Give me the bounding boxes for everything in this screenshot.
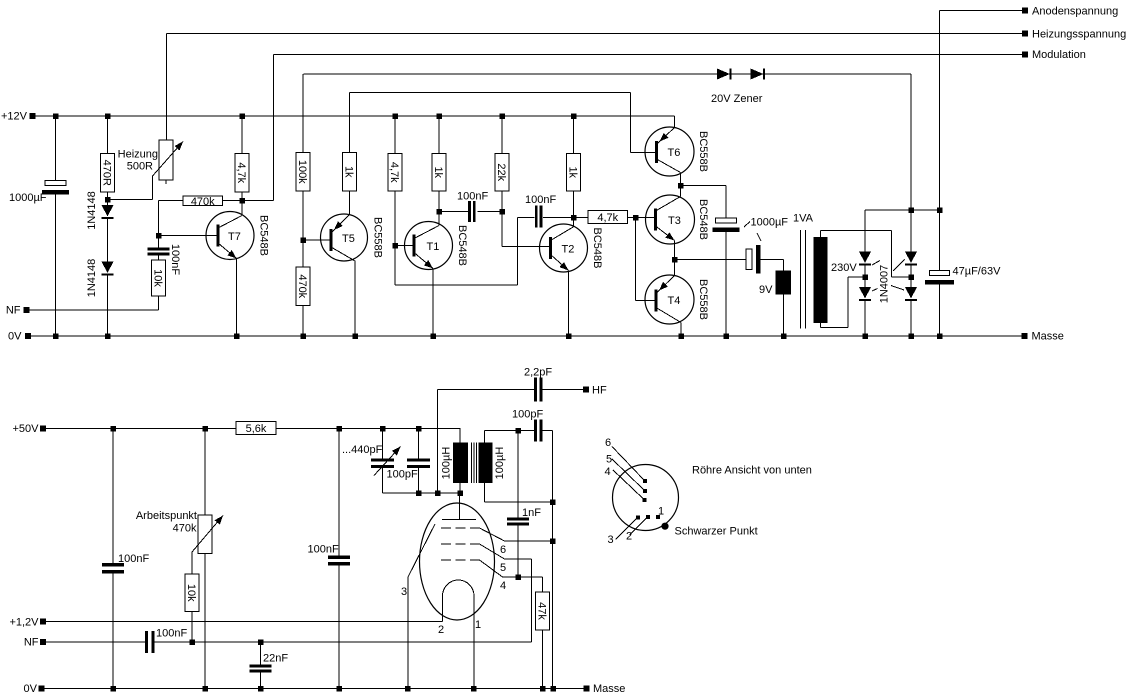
node tank/C100p xyxy=(416,490,422,496)
node 0V/R470k xyxy=(300,333,306,339)
wire C100p-tank bottom xyxy=(418,468,420,493)
node +50V/Cvar xyxy=(380,426,386,432)
svg-text:Anodenspannung: Anodenspannung xyxy=(1032,6,1118,18)
svg-text:500R: 500R xyxy=(127,161,153,173)
wire zener line right xyxy=(765,73,912,75)
transistor T6 bar xyxy=(655,141,658,163)
capacitor 1nF xyxy=(507,518,529,521)
tube grid1 dashes xyxy=(441,527,480,529)
socket pin 1 xyxy=(656,515,660,519)
transistor T3 collector xyxy=(656,197,681,212)
wire NF line right xyxy=(155,641,532,643)
svg-text:T4: T4 xyxy=(668,295,681,307)
transistor T2 bar xyxy=(549,237,552,259)
terminal Masse top xyxy=(1022,333,1028,339)
wire D4 bottom xyxy=(864,300,866,336)
transistor T6 collector xyxy=(657,159,681,173)
node 0V/T7e xyxy=(234,333,240,339)
node +12V/R4k7-T1 xyxy=(392,113,398,119)
node 0V/bridge2 xyxy=(908,333,914,339)
wire 47k bottom xyxy=(542,630,544,689)
svg-text:2: 2 xyxy=(626,531,632,543)
wire pin3 down xyxy=(407,577,409,689)
wire T6 collector down xyxy=(680,173,682,197)
osc core line 1 xyxy=(470,443,472,484)
transistor T2 circle xyxy=(540,224,588,272)
wire 470k-T5 top xyxy=(302,240,304,267)
winding 100uH L1 xyxy=(453,443,468,484)
wire C100n to 10k xyxy=(158,256,160,261)
wire L2 bottom xyxy=(484,483,486,502)
wire R4k7-T7 bottom xyxy=(241,192,243,201)
wire T4 emitter up xyxy=(674,260,676,276)
wire T6 emitter up xyxy=(674,116,676,128)
node T7 base junction xyxy=(156,233,162,239)
transistor T5 emitter xyxy=(331,215,350,234)
svg-text:T2: T2 xyxy=(562,244,575,256)
svg-text:Heizung: Heizung xyxy=(118,149,158,161)
node +12V/R4k7-T7 xyxy=(239,113,245,119)
wire T3 emitter down xyxy=(674,241,676,260)
wire R1k-T5 bottom xyxy=(349,191,351,215)
diode D6 1N4007 xyxy=(905,287,917,299)
transistor T2 collector xyxy=(551,227,575,241)
svg-text:1k: 1k xyxy=(432,166,444,178)
svg-text:BC548B: BC548B xyxy=(456,225,468,266)
svg-text:Röhre Ansicht von unten: Röhre Ansicht von unten xyxy=(692,465,812,477)
wire T7 collector to Modulation xyxy=(242,200,274,202)
diode D_Z2 20V Zener xyxy=(751,69,764,80)
node +50V/C100n-2 xyxy=(336,426,342,432)
svg-text:1: 1 xyxy=(475,619,481,631)
svg-text:+12V: +12V xyxy=(1,111,28,123)
wire T7 base xyxy=(159,235,219,237)
node +12V/R1k-T1 xyxy=(436,113,442,119)
svg-text:100nF: 100nF xyxy=(308,544,339,556)
svg-text:47k: 47k xyxy=(536,602,548,620)
wire zener line left xyxy=(304,73,718,75)
wire 470k left xyxy=(158,201,160,236)
socket pin 2 xyxy=(646,515,650,519)
svg-text:4: 4 xyxy=(605,466,611,478)
svg-text:4: 4 xyxy=(500,580,506,592)
svg-text:9V: 9V xyxy=(759,284,773,296)
svg-text:BC548B: BC548B xyxy=(258,215,270,256)
svg-text:+1,2V: +1,2V xyxy=(9,617,39,629)
transistor T6 emitter xyxy=(657,128,675,145)
node NF/22nF xyxy=(258,639,264,645)
capacitor 100nF NF series xyxy=(145,631,148,653)
resistor 22k xyxy=(495,154,509,192)
svg-text:BC558B: BC558B xyxy=(697,131,709,172)
wire D2 bottom xyxy=(107,275,109,337)
wire anode lead xyxy=(459,493,461,520)
node 0V-bottom/R47k xyxy=(540,686,546,692)
wire R470R bottom xyxy=(107,192,109,205)
svg-text:1k: 1k xyxy=(567,166,579,178)
svg-text:470k: 470k xyxy=(296,274,308,298)
svg-text:100pF: 100pF xyxy=(387,469,418,481)
capacitor 100nF bottom-left xyxy=(102,563,124,567)
svg-text:4,7k: 4,7k xyxy=(388,162,400,183)
svg-text:22nF: 22nF xyxy=(263,653,288,665)
node +50V/poti xyxy=(202,426,208,432)
svg-text:100k: 100k xyxy=(296,160,308,184)
arrow Cvar xyxy=(374,447,401,476)
wire R1k-T1 top xyxy=(438,116,440,154)
svg-text:4,7k: 4,7k xyxy=(597,212,618,224)
tube grid2 dashes xyxy=(441,543,480,545)
node T1 collector junction xyxy=(436,209,442,215)
transistor T3 bar xyxy=(654,209,657,231)
transistor T4 collector xyxy=(656,308,681,323)
node L2bot/gnd-col xyxy=(550,499,556,505)
tube anode plate xyxy=(442,519,476,521)
schwarzer punkt dot xyxy=(661,523,668,530)
wire R4k7-T1 top xyxy=(394,116,396,154)
transistor T7 circle xyxy=(206,212,254,260)
svg-text:BC548B: BC548B xyxy=(697,199,709,240)
wire 100k top xyxy=(302,74,304,153)
svg-text:10k: 10k xyxy=(152,269,164,287)
svg-text:2,2pF: 2,2pF xyxy=(524,367,552,379)
wire 0V rail top xyxy=(31,335,1022,337)
svg-text:BC548B: BC548B xyxy=(591,228,603,269)
wire R1k-T2 top xyxy=(573,116,575,154)
node bridge AC2 xyxy=(908,274,914,280)
svg-text:470k: 470k xyxy=(173,523,197,535)
svg-text:20V Zener: 20V Zener xyxy=(711,93,763,105)
node 22k junction xyxy=(499,209,505,215)
resistor 1k T2 xyxy=(567,154,581,192)
node T5 base junction xyxy=(300,237,306,243)
transistor T4 bar xyxy=(655,290,658,312)
wire T5 emitter to T6 base xyxy=(350,92,631,94)
socket pin 5 xyxy=(643,489,647,493)
wire wiper down xyxy=(191,552,193,574)
svg-text:BC558B: BC558B xyxy=(372,217,384,258)
node +12V/R1k-T2 xyxy=(571,113,577,119)
node 0V/T4c xyxy=(678,333,684,339)
node bridge top/col2 xyxy=(908,207,914,213)
svg-text:100nF: 100nF xyxy=(169,244,181,275)
wire +50V to winding L1 xyxy=(459,429,461,443)
wire 10k to NF xyxy=(158,296,160,310)
wire base to C100n xyxy=(158,236,160,248)
svg-text:0V: 0V xyxy=(8,331,22,343)
node T3T4 output junction xyxy=(672,257,678,263)
svg-text:Modulation: Modulation xyxy=(1032,49,1086,61)
tube grid3 lead pin4 xyxy=(480,560,503,577)
svg-text:5: 5 xyxy=(500,562,506,574)
wire poti Heizung top xyxy=(166,34,168,141)
wire Cvar top xyxy=(382,429,384,459)
resistor 10k xyxy=(152,260,166,296)
svg-text:1000µF: 1000µF xyxy=(751,217,789,229)
capacitor 100nF T1-T2 xyxy=(468,201,471,222)
diode D2 1N4148 xyxy=(102,262,114,274)
socket lead 2 xyxy=(630,518,647,535)
wire 100k bottom xyxy=(302,191,304,240)
node 0V/T2e xyxy=(566,333,572,339)
svg-text:100nF: 100nF xyxy=(525,194,556,206)
node tank/HF xyxy=(435,490,441,496)
svg-text:100µH: 100µH xyxy=(440,447,452,480)
terminal Modulation xyxy=(1022,52,1028,58)
svg-text:Masse: Masse xyxy=(1032,331,1064,343)
wire pin4 to 47k xyxy=(542,577,544,592)
wire 22nF top xyxy=(260,642,262,665)
svg-text:NF: NF xyxy=(24,637,39,649)
wire T1 emitter down xyxy=(432,269,434,337)
node 0V/9V xyxy=(781,333,787,339)
wire C1a to 22k node xyxy=(478,211,503,213)
svg-text:100µH: 100µH xyxy=(494,447,506,480)
diode D1 1N4148 xyxy=(102,205,114,217)
resistor 4,7k T7 xyxy=(235,154,249,193)
wire tank bottom xyxy=(383,492,461,494)
wire +50V rail left xyxy=(46,428,236,430)
wire 230V bottom to bridge xyxy=(820,323,822,328)
svg-text:BC558B: BC558B xyxy=(697,279,709,320)
transistor T7 collector xyxy=(218,216,242,229)
node T1 base junction xyxy=(392,243,398,249)
wire D1-D2 xyxy=(107,218,109,262)
svg-text:2: 2 xyxy=(438,624,444,636)
resistor 10k bottom xyxy=(185,574,199,612)
wire Cvar bottom xyxy=(382,468,384,493)
transistor T3 circle xyxy=(646,195,695,244)
socket lead 6 xyxy=(612,447,644,480)
socket lead 5 xyxy=(612,459,644,490)
core line 2 xyxy=(805,230,807,329)
wire D5-D6 xyxy=(910,265,912,288)
svg-text:5: 5 xyxy=(606,454,612,466)
wire L1 bottom xyxy=(459,483,461,493)
svg-text:6: 6 xyxy=(605,437,611,449)
wire T4 collector down xyxy=(680,323,682,337)
svg-text:0V: 0V xyxy=(24,683,38,695)
wire poti Arbeitspunkt bottom xyxy=(204,554,206,690)
winding 9V xyxy=(776,271,792,295)
wire R1k-T2 bottom xyxy=(573,191,575,218)
wire 22k top xyxy=(501,116,503,154)
node 0V/D2 xyxy=(105,333,111,339)
wire T1 base to C2 route xyxy=(394,246,396,286)
resistor 5,6k xyxy=(236,422,276,435)
terminal Masse bottom xyxy=(584,686,590,692)
transistor T1 circle xyxy=(405,222,453,270)
capacitor 47uF/63V xyxy=(930,271,950,276)
svg-text:100pF: 100pF xyxy=(512,409,543,421)
wire C100p-tank top xyxy=(418,429,420,459)
node 0V/C1 xyxy=(53,333,59,339)
node +12V/R22k xyxy=(499,113,505,119)
svg-text:HF: HF xyxy=(592,385,607,397)
node tank/anode xyxy=(457,490,463,496)
wire 1nF bottom xyxy=(517,526,519,578)
terminal Heizungsspannung xyxy=(1022,31,1028,37)
wire R1k-T5 top xyxy=(349,93,351,153)
wire T1 base xyxy=(395,245,414,247)
svg-text:...440pF: ...440pF xyxy=(342,444,383,456)
svg-text:6: 6 xyxy=(500,544,506,556)
resistor 100k xyxy=(296,153,310,192)
wire L2 top xyxy=(484,431,486,443)
svg-text:100nF: 100nF xyxy=(118,553,149,565)
tube pin3 lead xyxy=(408,524,435,577)
resistor 1k T5 xyxy=(343,153,357,192)
tube grid2 lead pin5 xyxy=(480,544,505,559)
wire C1 top xyxy=(55,116,57,181)
wire R1k-T1 bottom xyxy=(438,191,440,212)
svg-text:T6: T6 xyxy=(668,147,681,159)
capacitor 100nF T2-T1 xyxy=(535,206,538,228)
wire output to C-vert xyxy=(675,259,747,261)
wire 1nF top xyxy=(517,431,519,518)
wire T7 emitter down xyxy=(236,259,238,337)
svg-text:470k: 470k xyxy=(191,196,215,208)
wire NF input xyxy=(30,309,159,311)
wire between zeners xyxy=(731,73,751,75)
svg-text:1k: 1k xyxy=(343,166,355,178)
transistor T7 bar xyxy=(217,225,220,247)
wire poti Arbeitspunkt top xyxy=(204,429,206,516)
resistor 4,7k output xyxy=(588,211,628,224)
node 0V/C1000b xyxy=(723,333,729,339)
transistor T1 collector xyxy=(414,226,439,239)
svg-text:T5: T5 xyxy=(342,233,355,245)
wire D6 bottom xyxy=(910,300,912,336)
wire +1,2V line xyxy=(46,621,443,623)
socket lead 4 xyxy=(613,470,643,499)
resistor 47k xyxy=(536,592,550,630)
svg-text:47µF/63V: 47µF/63V xyxy=(953,266,1002,278)
wire 230V top to bridge xyxy=(820,231,822,238)
transistor T5 bar xyxy=(330,229,333,251)
node T2 collector junction xyxy=(571,215,577,221)
svg-text:1VA: 1VA xyxy=(793,213,814,225)
resistor 4,7k T1 xyxy=(388,154,402,192)
wire R4k7-T7 top xyxy=(241,116,243,154)
node +12V/C1 xyxy=(53,113,59,119)
node 0V-bottom/C22n xyxy=(258,686,264,692)
svg-text:5,6k: 5,6k xyxy=(246,423,267,435)
wire 22k bottom xyxy=(501,191,503,212)
capacitor 2,2pF xyxy=(534,378,537,402)
node L2top/1nF xyxy=(515,428,521,434)
node 0V-bottom/gnd xyxy=(550,686,556,692)
leader 1N4007 d xyxy=(891,286,904,291)
wire anode column xyxy=(939,11,941,271)
node 0V/C47u xyxy=(937,333,943,339)
capacitor 100nF bottom-mid xyxy=(328,556,350,560)
wire 22k node to T2 base xyxy=(501,212,503,247)
node 0V-bottom/C100n2 xyxy=(336,686,342,692)
capacitor C1 1000uF xyxy=(45,181,66,186)
capacitor ...440pF variable xyxy=(371,459,394,462)
wire zener line drop to bridge xyxy=(910,74,912,252)
capacitor 100pF coupling xyxy=(534,420,537,442)
svg-text:NF: NF xyxy=(6,305,21,317)
node 0V-bottom/C100n1 xyxy=(110,686,116,692)
wire R470R top xyxy=(107,116,109,154)
svg-text:Heizungsspannung: Heizungsspannung xyxy=(1032,29,1126,41)
node wiper junction xyxy=(105,197,111,203)
wire T3 base xyxy=(636,217,656,219)
potentiometer Arbeitspunkt 470k xyxy=(198,515,212,554)
svg-text:4,7k: 4,7k xyxy=(235,162,247,183)
socket pin 3 xyxy=(636,516,640,520)
socket pin 6 xyxy=(643,479,647,483)
wire C1000 bottom xyxy=(725,232,727,336)
potentiometer Heizung 500R xyxy=(159,140,173,180)
wire C-vert to 9V xyxy=(761,259,784,261)
wire T6c to C1000 xyxy=(681,185,727,187)
node bridge top/col3 xyxy=(937,207,943,213)
wire 100pF right down xyxy=(543,430,553,432)
wire +50V rail right xyxy=(276,428,461,430)
wire 0V rail bottom xyxy=(45,688,584,690)
terminal Anodenspannung xyxy=(1022,8,1028,14)
diode D4 1N4007 xyxy=(859,287,871,299)
wire 4,7k out right xyxy=(628,217,656,219)
transistor T6 circle xyxy=(645,127,694,176)
svg-text:+50V: +50V xyxy=(13,423,40,435)
resistor 470R xyxy=(101,154,115,193)
wire 22nF bottom xyxy=(260,673,262,690)
resistor 470k horizontal xyxy=(183,196,223,206)
transistor T4 emitter xyxy=(656,276,675,294)
wire 470k-T5 bottom xyxy=(302,306,304,337)
wire D3-D4 xyxy=(864,265,866,288)
wire T5 base xyxy=(303,239,331,241)
transistor T1 bar xyxy=(413,235,416,257)
wire HF column xyxy=(437,390,439,494)
wire C100n-1 bottom xyxy=(112,574,114,690)
node 0V-bottom/pin1 xyxy=(471,686,477,692)
wire HF line xyxy=(438,389,535,391)
capacitor 1000uF output xyxy=(746,249,752,270)
socket circle xyxy=(613,465,679,531)
wiper Arbeitspunkt arrow xyxy=(192,516,223,553)
svg-text:1: 1 xyxy=(658,506,664,518)
socket pin 4 xyxy=(643,498,647,502)
svg-text:3: 3 xyxy=(608,534,614,546)
wire C1 bottom xyxy=(55,195,57,337)
wire C2 right to T2 collector node xyxy=(543,217,588,219)
wire 9V bottom xyxy=(783,295,785,337)
transistor T1 emitter xyxy=(414,253,433,269)
transistor T5 circle xyxy=(321,214,368,261)
wire C100n-1 top xyxy=(112,429,114,564)
leader 1N4007 b xyxy=(893,260,905,272)
transistor T3 emitter xyxy=(656,226,675,241)
svg-text:T3: T3 xyxy=(668,215,681,227)
svg-text:T1: T1 xyxy=(427,241,440,253)
svg-text:470R: 470R xyxy=(101,160,113,186)
wire T5 collector down xyxy=(354,261,356,337)
wire 10k bottom to NF xyxy=(191,612,193,643)
osc core line 2 xyxy=(473,443,475,484)
wire NF line left xyxy=(46,641,145,643)
transistor T7 emitter xyxy=(218,243,237,259)
svg-text:Masse: Masse xyxy=(593,683,625,695)
capacitor 22nF xyxy=(250,665,272,668)
node +50V/C100n-1 xyxy=(110,426,116,432)
tube grid1 lead pin6 xyxy=(480,528,505,541)
osc core line 3 xyxy=(475,443,477,484)
